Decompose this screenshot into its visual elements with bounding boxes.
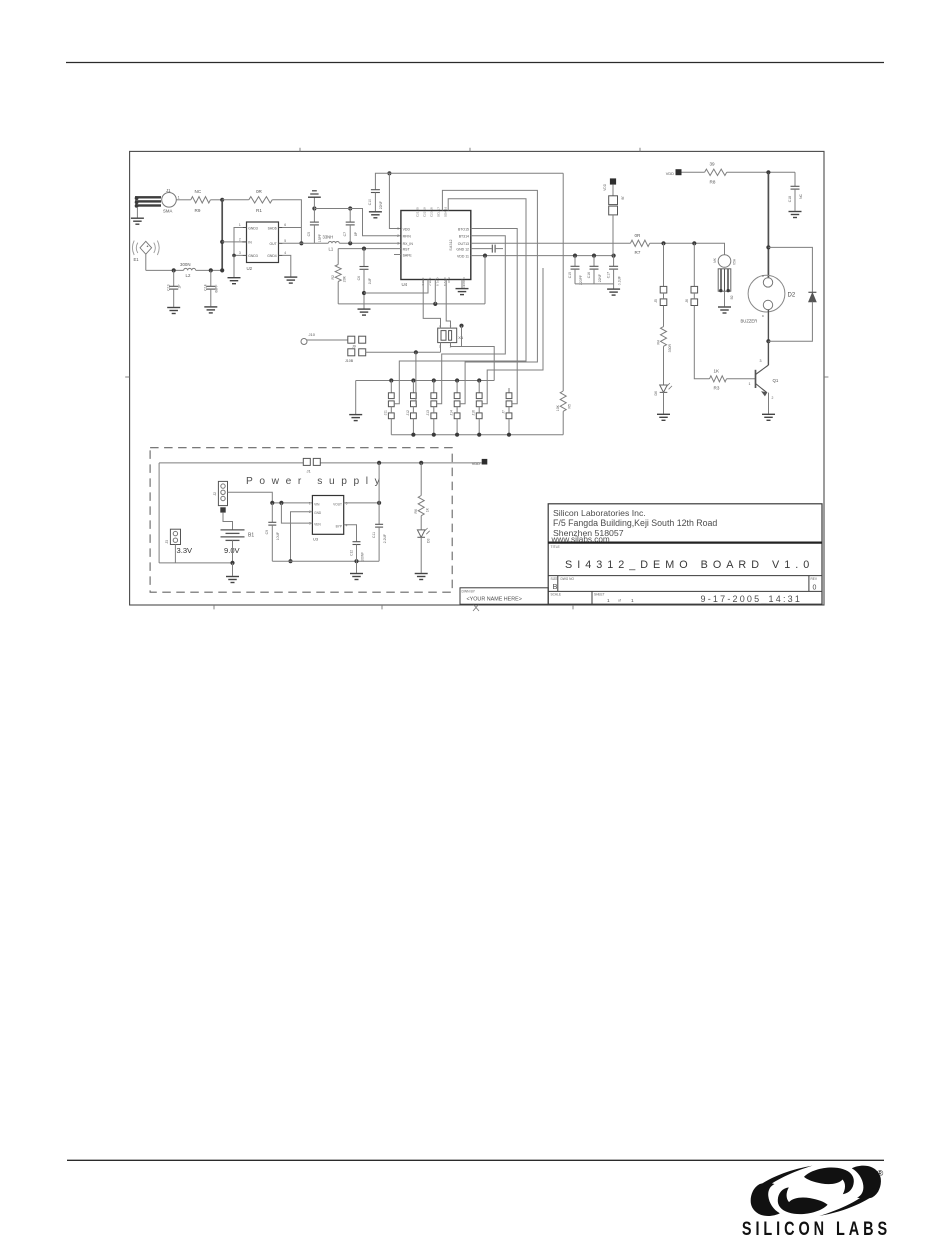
- capacitor C6: [357, 249, 372, 304]
- wire U2 pin4 to ground: [283, 255, 291, 276]
- ground (below J1): [131, 218, 144, 224]
- node bottom rail: [455, 433, 459, 437]
- jumper J14: [450, 381, 461, 435]
- node RST tap: [362, 247, 366, 251]
- wire VDD11 drop: [484, 256, 486, 304]
- svg-text:C18: C18: [788, 196, 792, 202]
- svg-text:D2: D2: [788, 292, 796, 298]
- svg-text:J1: J1: [307, 469, 312, 474]
- svg-text:22NF: 22NF: [379, 201, 383, 209]
- resistor R8: [705, 161, 727, 184]
- svg-text:VEN: VEN: [314, 522, 321, 526]
- svg-text:J14: J14: [450, 410, 454, 416]
- svg-text:5: 5: [284, 239, 286, 243]
- svg-text:Q1: Q1: [773, 378, 779, 383]
- svg-text:J1: J1: [166, 188, 171, 193]
- ground (jumper rail): [349, 415, 362, 421]
- svg-text:1: 1: [631, 598, 634, 604]
- svg-text:SCL 17: SCL 17: [437, 207, 441, 217]
- resistor R9: [191, 189, 211, 213]
- capacitor C12: [344, 525, 365, 562]
- node A (antenna input): [220, 198, 224, 202]
- node buzzer bottom: [766, 339, 770, 343]
- wire R2 to gnd rail: [337, 282, 339, 304]
- wire net J16: [482, 268, 543, 404]
- svg-text:SMA: SMA: [163, 208, 172, 213]
- IC U3 (LDO): [309, 496, 348, 542]
- wire U4 pin1 VDD: [389, 173, 401, 228]
- svg-text:BTO15: BTO15: [458, 227, 469, 231]
- svg-text:VDD: VDD: [403, 227, 411, 231]
- wire U2 grounds (pins 1,3): [234, 228, 242, 256]
- resistor R5: [556, 173, 571, 434]
- node U2 gnd: [232, 254, 236, 258]
- svg-text:4: 4: [284, 251, 286, 255]
- wire bottom left rail: [159, 562, 232, 564]
- svg-text:1K: 1K: [426, 507, 430, 512]
- wire top coupling net: [314, 209, 401, 236]
- svg-text:BYP: BYP: [336, 525, 342, 529]
- resistor R6: [414, 463, 430, 516]
- jumper J8: [603, 178, 625, 255]
- svg-text:SIZE: SIZE: [551, 577, 558, 581]
- battery B1: [221, 530, 255, 555]
- wire jumper bottom rail: [391, 434, 563, 436]
- capacitor C11: [372, 463, 387, 561]
- svg-text:SCALE: SCALE: [551, 593, 561, 597]
- schematic border frame: [125, 148, 828, 611]
- wire X1 pin4 to U4: [423, 280, 440, 329]
- resistor R2: [331, 249, 346, 283]
- title block frame: [548, 504, 822, 604]
- wire OUT13 net: [471, 242, 631, 244]
- connector J3: [165, 529, 181, 563]
- svg-text:10K: 10K: [556, 404, 560, 411]
- svg-text:C11: C11: [372, 532, 376, 538]
- node C5 top: [312, 206, 316, 210]
- svg-text:GND 12: GND 12: [456, 247, 469, 251]
- svg-text:VDD: VDD: [603, 183, 607, 190]
- svg-text:SHEET: SHEET: [594, 593, 605, 597]
- wire X1 pin2: [451, 326, 462, 347]
- page rule bottom: [67, 1159, 884, 1161]
- svg-text:D6: D6: [654, 391, 658, 396]
- svg-text:B10: B10: [447, 278, 451, 284]
- node C13 tap: [172, 268, 176, 272]
- wire jumper rail upturn: [462, 347, 495, 381]
- svg-text:BT314: BT314: [459, 235, 469, 239]
- svg-text:VOUT: VOUT: [333, 502, 342, 506]
- node L2 out: [220, 268, 224, 272]
- wire net J7-BTO: [471, 229, 517, 404]
- wire J6 to R3: [694, 306, 709, 379]
- svg-text:GP1 8: GP1 8: [436, 278, 440, 287]
- svg-text:U3: U3: [313, 537, 319, 542]
- jumper J1 (supply): [303, 458, 320, 473]
- svg-text:J6: J6: [685, 299, 689, 303]
- svg-text:1K: 1K: [714, 368, 721, 373]
- diode D4: [768, 247, 816, 341]
- node gnd rail tap: [433, 302, 437, 306]
- ground (below C18): [789, 212, 802, 218]
- svg-text:C22 19: C22 19: [423, 207, 427, 217]
- wire analog gnd rail: [338, 303, 485, 305]
- svg-text:R9: R9: [195, 208, 201, 213]
- svg-text:9-17-2005_14:31: 9-17-2005_14:31: [701, 594, 803, 604]
- svg-text:REV: REV: [811, 577, 818, 581]
- svg-text:IN: IN: [248, 241, 252, 245]
- svg-text:J12: J12: [406, 410, 410, 416]
- jumper J12: [406, 381, 417, 435]
- wire SAFE stub: [394, 254, 401, 256]
- ground (under U4): [456, 289, 469, 295]
- wire U3 VEN: [281, 503, 312, 523]
- capacitor C5: [307, 209, 322, 244]
- svg-text:VIN: VIN: [314, 502, 320, 506]
- svg-text:1P: 1P: [178, 284, 182, 289]
- svg-text:B1: B1: [248, 533, 254, 539]
- svg-text:J9: J9: [352, 345, 356, 349]
- node buzzer top: [766, 170, 770, 174]
- led D3: [417, 516, 430, 573]
- svg-text:3.3V: 3.3V: [177, 546, 194, 555]
- svg-text:39: 39: [710, 161, 716, 166]
- svg-text:SAFE: SAFE: [403, 253, 413, 257]
- inductor L2: [180, 262, 196, 278]
- svg-text:0R: 0R: [635, 233, 642, 238]
- node VDD11 a: [483, 254, 487, 258]
- svg-text:C10: C10: [368, 199, 372, 205]
- svg-text:V5A: V5A: [733, 258, 737, 265]
- svg-text:GND3: GND3: [248, 254, 258, 258]
- svg-text:R7: R7: [635, 250, 641, 255]
- svg-text:J10: J10: [309, 332, 316, 337]
- svg-text:J7: J7: [501, 410, 505, 414]
- ground (gnd rail): [358, 304, 371, 315]
- wire jumper top rail: [356, 380, 495, 382]
- wire node B to U2 pin2: [222, 241, 246, 243]
- svg-text:2: 2: [397, 234, 399, 238]
- wire R7 to transducer: [650, 243, 725, 254]
- wire battery gnd drop: [232, 563, 234, 576]
- title block TITLE row: [551, 545, 815, 571]
- capacitor C9: [265, 503, 280, 561]
- node rail C11: [377, 461, 381, 465]
- capacitor C16: [587, 256, 602, 284]
- wire net J13-BT3: [437, 236, 506, 404]
- buzzer D2: [730, 275, 796, 324]
- svg-text:1UF: 1UF: [368, 278, 372, 284]
- svg-text:1: 1: [397, 227, 399, 231]
- svg-text:L1: L1: [329, 247, 334, 252]
- node VIN b: [279, 501, 283, 505]
- ground (bypass row): [607, 284, 620, 295]
- svg-text:15PF: 15PF: [318, 234, 322, 242]
- svg-text:F3GND: F3GND: [462, 278, 466, 289]
- node bottom rail: [477, 433, 481, 437]
- svg-text:C16: C16: [587, 272, 591, 278]
- wire J2 to U3 VIN: [228, 492, 313, 503]
- svg-text:Si4312: Si4312: [449, 240, 453, 251]
- wire supply top rail: [159, 462, 481, 464]
- node supply gnd a: [288, 559, 292, 563]
- svg-text:2: 2: [239, 238, 241, 242]
- node B (U2 IN): [220, 240, 224, 244]
- svg-text:Power supply: Power supply: [246, 476, 386, 487]
- svg-text:1: 1: [178, 196, 180, 200]
- svg-text:RFIN: RFIN: [403, 235, 412, 239]
- ground (below D3): [415, 574, 428, 580]
- resistor R3: [710, 368, 727, 390]
- wire J10 to J9: [307, 339, 348, 341]
- svg-text:3: 3: [760, 359, 762, 363]
- jumper J7: [501, 388, 512, 435]
- transistor Q1: [749, 359, 779, 400]
- node bottom rail: [507, 433, 511, 437]
- svg-text:U4: U4: [402, 282, 408, 287]
- svg-text:2.2UF: 2.2UF: [383, 534, 387, 543]
- resistor R7: [630, 233, 649, 255]
- svg-text:SILICON LABS: SILICON LABS: [742, 1218, 891, 1239]
- svg-text:GND4: GND4: [267, 254, 277, 258]
- IC U2: [239, 222, 286, 271]
- wire U2 pin5 out: [283, 242, 302, 244]
- ground (transducer): [718, 307, 731, 313]
- capacitor C7: [343, 209, 358, 244]
- svg-text:VDD: VDD: [666, 171, 674, 176]
- node VOUT: [377, 501, 381, 505]
- svg-text:R5: R5: [567, 404, 571, 409]
- wire U3 VOUT: [344, 502, 379, 504]
- wire net J11-U4: [394, 199, 526, 404]
- IC U4 (Si4312): [397, 206, 471, 288]
- wire U2 pin6 up: [283, 227, 302, 229]
- wire U4 GND pin down: [461, 280, 463, 289]
- resistor R1: [249, 189, 272, 213]
- svg-text:OUT13: OUT13: [458, 242, 469, 246]
- wire supply gnd rail: [272, 560, 379, 562]
- wire VDD rail: [389, 172, 563, 174]
- svg-text:R2: R2: [331, 275, 335, 280]
- svg-text:C6: C6: [357, 276, 361, 280]
- title block size row: [551, 577, 818, 592]
- svg-text:RST: RST: [403, 247, 411, 251]
- wire J1 to R9: [176, 199, 191, 201]
- svg-text:C13: C13: [167, 284, 171, 290]
- svg-text:BUZZER: BUZZER: [741, 319, 758, 324]
- svg-text:1: 1: [749, 382, 751, 386]
- wire buzzer feed: [767, 172, 769, 278]
- svg-text:R8: R8: [710, 180, 716, 185]
- wire L2 input segment: [146, 269, 184, 271]
- svg-text:F/5 Fangda Building,Keji South: F/5 Fangda Building,Keji South 12th Road: [553, 518, 717, 528]
- wire X1 pin3 to U4: [446, 280, 450, 329]
- ground (battery): [226, 577, 239, 583]
- wire net J14-top: [442, 190, 537, 403]
- label Power supply: [246, 476, 386, 487]
- wire node A to R1: [222, 199, 249, 201]
- node X1 top: [459, 324, 463, 328]
- node rail J11: [389, 378, 393, 382]
- power flag VDD (R8): [666, 169, 682, 176]
- capacitor C10: [368, 173, 389, 211]
- node rail J13: [432, 378, 436, 382]
- svg-text:D3: D3: [427, 538, 431, 543]
- wire rail left drop: [158, 463, 160, 563]
- svg-text:68PF: 68PF: [215, 285, 219, 293]
- svg-text:®: ®: [877, 1168, 884, 1178]
- node RX junction: [299, 241, 303, 245]
- wire rail to ground: [355, 381, 357, 415]
- wire L1 to U4 RX_IN: [339, 242, 401, 244]
- svg-text:0: 0: [813, 585, 817, 592]
- wire VDD to R8: [682, 171, 705, 173]
- svg-text:B: B: [761, 315, 765, 317]
- svg-text:MK: MK: [713, 257, 717, 263]
- svg-text:J10B: J10B: [345, 359, 354, 363]
- node VDD11 b: [573, 254, 577, 258]
- wire R8 output: [727, 171, 795, 173]
- svg-text:R4: R4: [656, 340, 660, 345]
- capacitor C14: [204, 270, 219, 306]
- power rail stub (above C5): [308, 191, 321, 209]
- jumper J13: [426, 381, 436, 435]
- svg-text:0.1UF: 0.1UF: [617, 276, 621, 285]
- inductor L1: [323, 235, 340, 252]
- svg-text:0R: 0R: [256, 189, 263, 194]
- svg-text:300N: 300N: [180, 262, 191, 267]
- test point J10: [301, 332, 316, 345]
- svg-text:4: 4: [346, 524, 348, 528]
- title block company text: [551, 508, 718, 544]
- svg-text:VDD: VDD: [472, 461, 480, 466]
- svg-text:1: 1: [607, 598, 610, 604]
- svg-text:8P: 8P: [354, 231, 358, 236]
- node J6 tap: [692, 241, 696, 245]
- node rail R6: [419, 461, 423, 465]
- capacitor C17: [606, 256, 621, 286]
- node VIN a: [270, 501, 274, 505]
- svg-text:TITLE: TITLE: [551, 545, 561, 549]
- ground (below C13): [167, 308, 180, 314]
- wire J1 to ground: [136, 207, 138, 218]
- svg-text:Silicon Laboratories Inc.: Silicon Laboratories Inc.: [553, 508, 646, 518]
- svg-text:J13: J13: [426, 410, 430, 416]
- jumper J16: [472, 381, 482, 435]
- svg-text:DWN BY: DWN BY: [462, 590, 476, 594]
- title block scale row: [551, 593, 803, 604]
- crystal X1: [438, 324, 464, 348]
- node C7 bottom: [348, 241, 352, 245]
- svg-text:of: of: [618, 598, 621, 602]
- connector J2: [213, 481, 233, 530]
- svg-text:J3: J3: [165, 540, 169, 544]
- svg-text:J8: J8: [621, 196, 625, 200]
- svg-text:C5: C5: [307, 232, 311, 236]
- wire E1 to L2 line: [145, 254, 147, 270]
- capacitor C18: [788, 172, 803, 211]
- svg-text:E1: E1: [134, 257, 140, 262]
- node J5 tap: [661, 241, 665, 245]
- svg-text:RX_IN: RX_IN: [403, 242, 414, 246]
- node VDD11 d: [612, 254, 616, 258]
- svg-text:XTB 7: XTB 7: [428, 278, 432, 287]
- svg-text:B2: B2: [730, 295, 734, 299]
- transducer MK1: [713, 255, 737, 307]
- resistor R4: [656, 306, 672, 353]
- svg-text:R6: R6: [414, 509, 418, 514]
- svg-text:330R: 330R: [668, 344, 672, 353]
- svg-text:100NF: 100NF: [360, 552, 364, 562]
- jumper J5: [654, 243, 667, 305]
- node C14 tap: [209, 268, 213, 272]
- wire RX junction to L1: [301, 242, 328, 244]
- svg-text:<YOUR NAME HERE>: <YOUR NAME HERE>: [467, 597, 522, 603]
- svg-text:20K: 20K: [342, 275, 346, 282]
- svg-text:GND: GND: [314, 511, 322, 515]
- capacitor C8 (pin12): [471, 245, 503, 253]
- ground (Q1): [762, 414, 775, 420]
- svg-text:OUT: OUT: [270, 242, 277, 246]
- svg-text:2: 2: [772, 396, 774, 400]
- svg-text:SI4312_DEMO BOARD V1.0: SI4312_DEMO BOARD V1.0: [565, 559, 814, 571]
- wire U3 GND: [291, 512, 313, 562]
- node VDD rail / U4 pin1: [387, 171, 391, 175]
- svg-text:33NH: 33NH: [323, 235, 334, 240]
- jumper J6: [685, 243, 698, 305]
- wire R3 to Q1 base: [727, 378, 756, 380]
- svg-text:C21 20: C21 20: [416, 207, 420, 217]
- wire R1 to RX line: [272, 200, 301, 244]
- svg-text:C14: C14: [204, 284, 208, 290]
- svg-text:VDD 11: VDD 11: [457, 254, 469, 258]
- label 3.3V: [177, 546, 194, 555]
- wire J9 to X1 pin1: [366, 343, 441, 353]
- svg-text:3: 3: [397, 242, 399, 246]
- svg-text:U2: U2: [247, 266, 253, 271]
- svg-text:1: 1: [309, 501, 311, 505]
- svg-text:SDA 16: SDA 16: [444, 206, 448, 217]
- ground (below C10): [369, 212, 382, 218]
- ground (U2 right): [284, 277, 297, 283]
- capacitor C13: [167, 270, 182, 307]
- capacitor C15: [568, 256, 583, 285]
- wire R9 to node A: [210, 199, 222, 201]
- jumper J11: [384, 381, 394, 435]
- led D6: [654, 346, 672, 413]
- ground (U2 left): [228, 278, 241, 284]
- svg-text:DWG NO: DWG NO: [561, 577, 575, 581]
- svg-text:R3: R3: [714, 386, 720, 391]
- svg-text:NC: NC: [799, 193, 803, 198]
- wire RST net: [338, 248, 401, 250]
- wire node A down to U2 input: [221, 200, 223, 271]
- wire net J12-X1: [415, 352, 417, 404]
- ground (below C14): [204, 307, 217, 313]
- svg-text:C7: C7: [343, 232, 347, 236]
- svg-text:C23 18: C23 18: [430, 207, 434, 217]
- node diode tap: [766, 245, 770, 249]
- drawn-by box: [460, 588, 548, 604]
- svg-text:L2: L2: [186, 273, 191, 278]
- node supply gnd b: [354, 559, 358, 563]
- svg-text:R1: R1: [256, 208, 262, 213]
- wire Q1 emitter to ground: [768, 393, 770, 414]
- node VDD11 c: [592, 254, 596, 258]
- svg-text:J11: J11: [384, 410, 388, 415]
- svg-text:NC: NC: [195, 189, 202, 194]
- ground (below D6): [657, 414, 670, 420]
